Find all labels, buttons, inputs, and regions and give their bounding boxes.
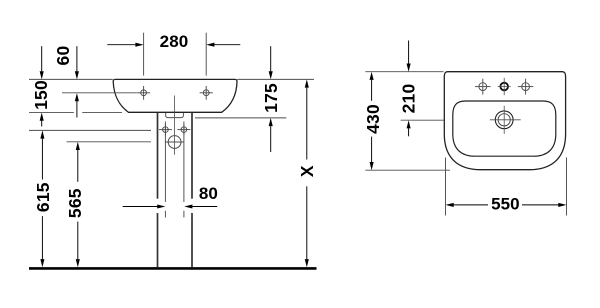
pedestal fixing hole left: [159, 124, 172, 135]
extension line: top edge: [365, 71, 443, 73]
svg-text:150: 150: [31, 80, 51, 110]
dimension 615: [33, 130, 53, 267]
dimension 210: [399, 41, 419, 137]
dimension 150: [31, 46, 51, 126]
drain with crosshair: [490, 106, 521, 134]
svg-text:280: 280: [160, 32, 189, 51]
dimension 430: [363, 72, 383, 171]
extension line: 280 right: [205, 33, 207, 76]
svg-text:550: 550: [491, 195, 520, 214]
svg-text:565: 565: [65, 188, 85, 218]
siphon outlet circle: [165, 136, 184, 149]
basin outer outline (top view): [444, 72, 565, 170]
svg-text:210: 210: [399, 84, 419, 114]
tap hole left (crosshair): [475, 79, 491, 95]
svg-text:X: X: [297, 165, 317, 177]
svg-text:80: 80: [199, 184, 218, 203]
extension line: bottom edge: [365, 169, 450, 171]
pedestal left outer edge (upper segment): [157, 113, 159, 199]
extension line: rim level right: [237, 78, 314, 80]
dimension 280: [107, 32, 240, 51]
wall fixing hole left (basin): [137, 86, 150, 100]
extension line: fixing hole level: [62, 92, 137, 94]
dimension 60: [53, 46, 79, 118]
tap hole center (drilled): [498, 78, 511, 95]
floor line: [29, 267, 317, 270]
pedestal right outer edge (lower segment): [191, 213, 193, 267]
dimension 80: [123, 184, 218, 209]
pedestal inner recess left edge: [164, 122, 166, 203]
extension line: 550 left: [445, 158, 447, 216]
dimension 550: [446, 195, 567, 214]
extension line: drain level: [401, 119, 444, 121]
extension line: rim level left: [29, 78, 113, 80]
extension line: 615 level: [29, 129, 151, 131]
extension line: 150 level: [29, 112, 74, 114]
extension line: 565 level: [67, 141, 152, 143]
svg-text:615: 615: [33, 182, 53, 212]
extension line: 175 level: [195, 117, 286, 119]
dimension 175: [261, 46, 281, 152]
fixing notch under basin: [166, 113, 184, 118]
pedestal right outer edge (upper segment): [191, 113, 193, 199]
pedestal fixing hole right: [177, 124, 190, 135]
dimension X: [297, 79, 317, 267]
extension line: 550 right: [566, 158, 568, 216]
wall fixing hole right (basin): [200, 86, 213, 100]
svg-text:430: 430: [363, 104, 383, 134]
pedestal left outer edge (lower segment): [157, 213, 159, 267]
washbasin body outline (front view): [113, 79, 237, 112]
extension line: 280 left: [143, 33, 145, 76]
inner bowl outline: [453, 101, 556, 156]
tap hole right (crosshair): [518, 79, 534, 95]
vertical centerline of pedestal: [174, 96, 176, 155]
dimension 565: [65, 142, 85, 267]
svg-text:60: 60: [53, 46, 73, 66]
pedestal inner recess right edge: [183, 122, 185, 203]
svg-text:175: 175: [261, 83, 281, 113]
